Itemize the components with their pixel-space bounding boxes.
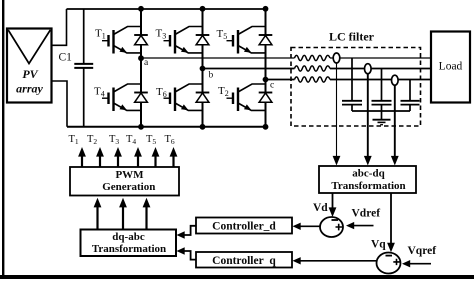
frame bottom bar [0,275,474,279]
current sensor c [392,75,399,85]
svg-text:PV: PV [22,67,38,81]
filter capacitor Cc [409,80,411,112]
inverter leg 2 [202,9,204,127]
dq-abc Transformation box [81,230,177,257]
svg-text:c: c [270,81,274,91]
wire: Controller_d to dq-abc [184,226,196,235]
PV array box [7,29,52,103]
svg-text:Controller_d: Controller_d [212,221,276,233]
svg-text:T2: T2 [218,85,229,98]
wire: sensor a tap [336,63,338,157]
abc-dq Transformation box [319,166,416,193]
svg-text:LC filter: LC filter [329,30,375,44]
wire: phase a line [141,57,431,59]
junction dots on bottom rail [138,124,144,130]
node a [138,55,144,61]
inductor Lc [295,77,330,82]
svg-text:Vqref: Vqref [408,245,437,257]
summing junction Vq [377,253,401,274]
junction dots on top rail [138,6,144,12]
transistor T1 [102,27,148,54]
svg-text:Transformation: Transformation [92,243,166,255]
svg-text:T5: T5 [146,134,156,146]
filter capacitor Ca [351,58,353,111]
LC filter dashed box [291,48,421,127]
svg-text:Controller q: Controller q [212,255,276,267]
capacitor C1 [83,9,85,127]
svg-text:T2: T2 [87,134,97,146]
Load box [431,32,470,103]
svg-text:Vdref: Vdref [352,208,381,220]
current sensor b [365,64,372,74]
svg-text:T4: T4 [126,134,136,146]
wire: Vq error to Controller_q [300,260,377,262]
inverter leg 3 [265,9,267,127]
Controller_d box [196,218,292,234]
transistor T2 [227,84,273,111]
arrows dq-abc to PWM [98,207,147,230]
node c [263,77,269,83]
transistor T6 [164,84,210,111]
svg-text:C1: C1 [59,52,73,64]
wire: PV positive lead [52,9,67,45]
transistor T3 [164,27,210,54]
ground [381,111,383,120]
svg-text:T3: T3 [156,28,167,41]
svg-text:T1: T1 [69,134,79,146]
wire: phase b line [203,68,432,70]
Vqref input arrow [409,263,431,265]
svg-text:T5: T5 [217,28,228,41]
svg-text:T6: T6 [156,86,167,99]
svg-text:PWM: PWM [115,169,144,181]
svg-text:T4: T4 [94,86,105,99]
wire: Controller_q to dq-abc [184,251,196,260]
wire: phase c line [266,79,432,81]
wire: Vq output [390,193,392,244]
svg-text:T1: T1 [95,28,106,41]
svg-text:b: b [209,71,214,81]
wire: bottom DC rail [67,126,266,128]
current sensor a [333,53,340,63]
wire: PV negative lead [52,81,68,127]
svg-text:T3: T3 [109,134,119,146]
wire: top DC rail [67,8,266,10]
inductor Lb [295,66,330,71]
svg-text:a: a [144,58,149,68]
arrowheads into abc-dq box [333,156,341,166]
wire: sensor b tap [367,73,369,156]
wire: Vd error to Controller_d [300,225,320,227]
svg-text:Vq: Vq [371,239,386,251]
inverter leg 1 [140,9,142,127]
svg-text:T6: T6 [165,134,175,146]
svg-text:Vd: Vd [313,202,328,214]
Controller_q box [196,252,292,268]
summing junction Vd [320,217,343,237]
filter capacitor Cb [381,69,383,112]
PWM Generation box [70,167,179,196]
svg-text:dq-abc: dq-abc [112,231,145,243]
svg-text:Generation: Generation [102,181,155,193]
transistor T4 [102,84,148,111]
svg-text:abc-dq: abc-dq [352,168,385,180]
svg-text:Load: Load [439,61,463,73]
wire: capacitor common bus [352,110,410,112]
wire: Vd output [332,193,334,209]
Vdref input arrow [353,225,374,227]
PV array chevron symbol [8,30,50,64]
inductor La [295,55,330,60]
PWM gate arrows [82,157,174,168]
wire: sensor c tap [394,85,396,157]
svg-text:Transformation: Transformation [331,180,405,192]
node b [200,66,206,72]
transistor T5 [227,27,273,54]
svg-text:array: array [16,82,43,96]
frame left border [2,0,4,277]
